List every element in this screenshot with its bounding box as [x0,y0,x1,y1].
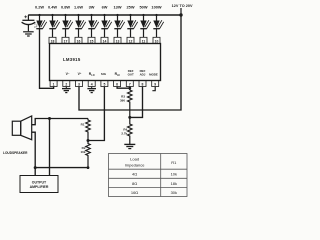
wire speaker hot to divider [32,119,88,125]
pin 14 (top) [101,37,108,43]
svg-text:14: 14 [103,39,107,43]
wire LED1 cathode to pin 1 [40,28,54,89]
output amplifier box [20,176,58,193]
wire REF ADJ pin 8 [130,87,143,118]
ground (pin 2 V-) [62,87,71,93]
svg-text:Impedance: Impedance [125,163,146,168]
pin 13 (top) [114,37,121,43]
svg-text:6: 6 [116,83,118,87]
svg-text:MODE: MODE [149,73,158,77]
svg-text:2.7k: 2.7k [121,132,127,136]
pin 17 (top) [62,37,69,43]
svg-text:30k: 30k [171,190,177,195]
svg-text:ADJ: ADJ [140,73,146,77]
svg-text:10k: 10k [171,172,177,177]
node pin6/pin7 junction [128,87,131,90]
supply rail [28,14,181,16]
resistor R4 2.7k [121,117,132,144]
svg-text:LOUDSPEAKER: LOUDSPEAKER [3,151,28,155]
svg-text:0.2W: 0.2W [35,5,44,10]
svg-text:17: 17 [64,39,68,43]
IC U1 LM3915 body [50,44,161,81]
svg-text:13W: 13W [114,5,122,10]
svg-text:10: 10 [155,39,159,43]
ground (C1) [23,32,34,36]
loudspeaker LS1 [3,116,32,155]
ground (pin 4 RLO) [87,87,96,93]
pin 12 (top) [127,37,134,43]
svg-text:25W: 25W [127,5,135,10]
LED D3 0.8W [61,5,73,38]
pin 7 (bottom) [126,81,133,87]
svg-text:7: 7 [129,83,131,87]
svg-text:OUT: OUT [128,73,134,77]
wire return to R2 [35,167,88,169]
svg-text:LM3915: LM3915 [63,57,81,62]
svg-text:1: 1 [53,83,55,87]
svg-text:11: 11 [142,39,146,43]
node REF ADJ junction [128,116,131,119]
pin 10 (top) [153,37,160,43]
ground (R4) [124,144,135,148]
pin 11 (top) [140,37,147,43]
pin 2 (bottom) [63,81,70,87]
svg-text:RHI: RHI [115,72,120,77]
pin 4 (bottom) [88,81,95,87]
pin 3 (bottom) [76,81,83,87]
svg-text:8Ω: 8Ω [132,181,137,186]
svg-text:RLO: RLO [89,72,95,77]
svg-text:OUTPUT: OUTPUT [32,180,47,184]
node R1/R2/SIG junction [87,139,90,142]
svg-text:0.4W: 0.4W [48,5,57,10]
svg-text:SIG: SIG [101,72,107,76]
svg-text:100W: 100W [151,5,161,10]
table Load Impedance vs R1 [109,154,188,197]
svg-text:Load: Load [130,157,139,162]
svg-text:16Ω: 16Ω [131,190,138,195]
svg-text:18: 18 [51,39,55,43]
wire SIG pin 5 to divider junction [88,87,104,141]
node R2 bottom / return [87,166,90,169]
svg-text:10k: 10k [80,150,85,154]
pin 15 (top) [88,37,95,43]
svg-text:1.6W: 1.6W [74,5,83,10]
svg-text:0.8W: 0.8W [61,5,70,10]
svg-text:R1: R1 [171,160,177,165]
svg-text:9: 9 [154,83,156,87]
svg-text:50W: 50W [140,5,148,10]
LED D10 100W [151,5,163,38]
LED D4 1.6W [74,5,86,38]
pin 8 (bottom) [139,81,146,87]
resistor R3 390 [120,90,132,117]
svg-text:16: 16 [77,39,81,43]
LED D5 3W [88,5,98,38]
svg-text:15: 15 [90,39,94,43]
wire amp hot [49,119,51,176]
svg-text:5: 5 [103,83,105,87]
supply terminal 12V TO 20V [172,4,193,17]
resistor R1 [81,119,91,141]
svg-text:390: 390 [120,99,125,103]
LED D1 0.2W [35,5,47,29]
svg-text:3: 3 [78,83,80,87]
LED D6 6W [101,5,111,38]
pin 1 (bottom) [50,81,57,87]
node return/amp junction [34,166,37,169]
svg-text:4: 4 [91,83,93,87]
svg-text:8: 8 [142,83,144,87]
svg-text:4Ω: 4Ω [132,172,137,177]
resistor R2 10k [80,141,90,168]
svg-text:R1: R1 [81,123,85,127]
LED D7 13W [114,5,125,38]
svg-text:12: 12 [129,39,133,43]
capacitor C1 2.2uF [22,15,39,31]
wire REF OUT pin 7 down [129,87,131,91]
pin 9 MODE stub [152,87,155,91]
svg-text:2: 2 [65,83,67,87]
svg-text:12V TO 20V: 12V TO 20V [172,4,193,8]
svg-text:3W: 3W [89,5,95,10]
node amp hot tap [48,117,51,120]
pin 16 (top) [75,37,82,43]
LED D8 25W [127,5,138,38]
svg-text:18k: 18k [171,181,177,186]
svg-text:AMPLIFIER: AMPLIFIER [30,185,49,189]
svg-text:6W: 6W [102,5,108,10]
svg-text:13: 13 [116,39,120,43]
wire RHI pin 6 to REF OUT pin 7 [117,87,130,89]
pin 6 (bottom) [114,81,121,87]
pin 5 (bottom) [101,81,108,87]
LED D9 50W [140,5,151,38]
wire supply to V+ pin 3 [79,15,181,110]
LED D2 0.4W [48,5,60,38]
pin 18 (top) [49,37,56,43]
wire speaker return / amp [32,132,36,175]
pin 9 (bottom) [152,81,159,87]
